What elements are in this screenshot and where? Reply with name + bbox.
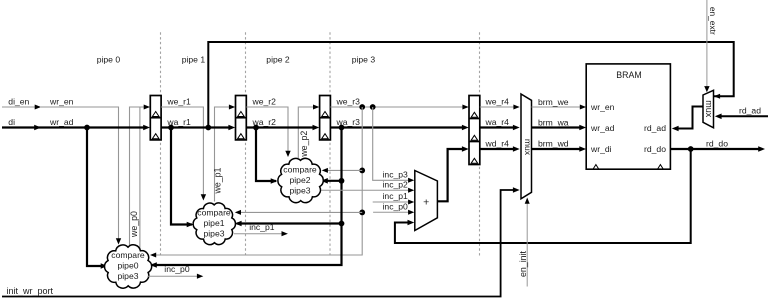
node wr_ad label — [49, 117, 74, 127]
svg-text:inc_p3: inc_p3 — [383, 169, 409, 179]
svg-text:pipe3: pipe3 — [203, 228, 224, 238]
compare cloud CMP0 (pipe0 vs pipe3) — [105, 245, 152, 288]
node we_r1 label — [166, 96, 191, 106]
node we_r3 label — [336, 96, 361, 106]
node en_init label — [518, 250, 528, 276]
wire we_p1 to reg2 en — [215, 105, 236, 202]
wire wa_r3 to compare pipe1 — [235, 221, 342, 227]
svg-text:inc_p2: inc_p2 — [383, 179, 409, 189]
wire adder output to reg4 wd — [437, 146, 468, 201]
register R2 (we_r2/wa_r2) — [236, 96, 247, 140]
wire en_extr — [704, 0, 709, 92]
svg-text:rd_ad: rd_ad — [739, 105, 761, 115]
svg-text:inc_p0: inc_p0 — [383, 201, 409, 211]
svg-text:pipe2: pipe2 — [289, 175, 310, 185]
wire: pipe stage boundary 1 — [245, 32, 247, 255]
wire rd_ad input — [715, 114, 768, 120]
svg-text:we_r2: we_r2 — [252, 96, 277, 106]
svg-text:pipe1: pipe1 — [203, 218, 224, 228]
svg-text:wa_r4: wa_r4 — [485, 117, 510, 127]
node inc_p1 label (adder) — [383, 191, 409, 201]
svg-text:compare: compare — [197, 207, 231, 217]
svg-text:we_r4: we_r4 — [485, 96, 510, 106]
wire wa_r1 to compare pipe1 — [171, 128, 194, 228]
node wa_r1 label — [166, 117, 191, 127]
svg-text:brm_we: brm_we — [538, 97, 569, 107]
node inc_p0 label (adder) — [383, 201, 409, 211]
wire we_r1 to compare pipe1 — [161, 107, 206, 201]
svg-text:rd_do: rd_do — [706, 139, 728, 149]
wire wa_r2 to reg3 — [246, 125, 319, 131]
node we_p1 label — [212, 167, 222, 194]
svg-text:wr_ad: wr_ad — [590, 123, 615, 133]
wire wa_r3 to reg4 — [330, 125, 468, 131]
node wd_r4 label — [485, 138, 510, 148]
node wr_en label — [49, 96, 74, 106]
svg-text:mux: mux — [704, 100, 714, 118]
svg-text:inc_p1: inc_p1 — [249, 222, 275, 232]
svg-text:rd_ad: rd_ad — [644, 123, 666, 133]
svg-text:inc_p0: inc_p0 — [164, 264, 190, 274]
node brm_wd label — [538, 138, 569, 148]
svg-text:pipe 3: pipe 3 — [352, 55, 376, 65]
wire wa_r2 to compare pipe2 — [256, 128, 278, 184]
compare cloud CMP1 (pipe1 vs pipe3) — [193, 203, 235, 245]
node we_r2 label — [252, 96, 277, 106]
mux M2 — [703, 90, 714, 128]
node di label — [8, 117, 15, 127]
svg-text:en_extr: en_extr — [708, 7, 718, 35]
wire wa_r1 feedback to read mux — [205, 42, 733, 130]
compare cloud CMP2 (pipe2 vs pipe3) — [278, 158, 323, 202]
svg-text:pipe3: pipe3 — [289, 185, 310, 195]
wire wr_ad to reg1 — [40, 125, 150, 131]
svg-text:pipe 2: pipe 2 — [266, 55, 290, 65]
svg-text:inc_p1: inc_p1 — [383, 191, 409, 201]
wire init_wr_port — [2, 187, 520, 296]
wire inc_p1 stub to adder — [373, 200, 415, 205]
svg-text:we_p1: we_p1 — [212, 167, 222, 194]
svg-text:wr_en: wr_en — [49, 96, 74, 106]
node wa_r4 label — [485, 117, 510, 127]
mux M1 — [521, 94, 533, 199]
wire inc_p1 output stub — [234, 231, 288, 236]
wire wa_r3 to compare clouds — [150, 128, 344, 268]
node pipe 2 label — [266, 55, 290, 65]
wire: pipe stage boundary 3 — [479, 32, 481, 255]
node inc_p2 label — [383, 179, 409, 189]
wire di wr_ad input — [2, 125, 41, 131]
wire: pipe stage boundary 2 — [329, 32, 331, 255]
svg-text:init_wr_port: init_wr_port — [7, 286, 54, 296]
node wa_r3 label — [336, 117, 361, 127]
svg-text:wr_en: wr_en — [590, 102, 615, 112]
svg-text:brm_wa: brm_wa — [538, 117, 569, 127]
node we_p0 label — [129, 211, 139, 238]
node we_p2 label — [299, 131, 309, 158]
node en_extr label — [708, 7, 718, 35]
wire wr_ad to compare pipe0 — [87, 128, 108, 269]
node di_en label — [8, 96, 29, 106]
wire brm_wa — [532, 125, 587, 131]
node init_wr_port label — [7, 286, 54, 296]
svg-text:compare: compare — [111, 250, 145, 260]
svg-text:en_init: en_init — [518, 250, 528, 276]
register R3 (we_r3/wa_r3) — [320, 96, 331, 140]
wire wd_r4 to mux — [480, 146, 520, 152]
wire we_r4 to mux — [480, 105, 520, 110]
wire wa_r4 to mux — [480, 125, 520, 131]
wire rd_do feedback to adder — [395, 146, 694, 243]
svg-text:wa_r3: wa_r3 — [336, 117, 361, 127]
node inc_p0 label (cloud) — [164, 264, 190, 274]
register R4 (we_r4/wa_r4/wd_r4) — [469, 96, 480, 165]
node rd_do label — [706, 139, 728, 149]
svg-text:wr_di: wr_di — [590, 144, 612, 154]
node rd_ad label — [739, 105, 761, 115]
node brm_we label — [538, 97, 569, 107]
svg-text:wr_ad: wr_ad — [49, 117, 74, 127]
wire wa_r3 to compare pipe2 — [321, 178, 342, 184]
node pipe 1 label — [182, 55, 206, 65]
wire brm_wd — [532, 146, 587, 152]
node pipe 3 label — [352, 55, 376, 65]
svg-text:we_r3: we_r3 — [336, 96, 361, 106]
svg-text:BRAM: BRAM — [616, 70, 641, 80]
svg-text:we_r1: we_r1 — [166, 96, 191, 106]
wire rd_do output — [671, 146, 766, 152]
svg-text:we_p0: we_p0 — [129, 211, 139, 238]
wire we_p0 branch to compare pipe0 — [139, 107, 141, 250]
adder A1 — [415, 171, 438, 231]
BRAM U1 — [586, 64, 670, 169]
wire inc_p0 output stub — [148, 274, 204, 279]
wire wr_en to compare pipe0 — [40, 107, 121, 245]
wire we_p2 to reg3 en — [298, 105, 319, 159]
wire inc_p2 to adder — [322, 188, 415, 193]
wire en_init select — [525, 198, 530, 287]
wire inc_p0 stub to adder — [373, 210, 414, 215]
svg-text:pipe3: pipe3 — [117, 271, 138, 281]
svg-text:mux: mux — [523, 139, 533, 156]
wire inc_p3 from we_r3 — [373, 107, 415, 183]
svg-text:pipe 0: pipe 0 — [97, 55, 121, 65]
wire di_en input — [2, 105, 41, 110]
wire brm_we — [532, 105, 587, 110]
svg-text:+: + — [423, 197, 429, 209]
node inc_p3 label — [383, 169, 409, 179]
node wa_r2 label — [252, 117, 277, 127]
node inc_p1 label (cloud) — [249, 222, 275, 232]
svg-text:di_en: di_en — [8, 96, 29, 106]
wire mux M2 output to BRAM rd_ad — [672, 107, 703, 132]
wire we_r3 to compare pipe2 — [322, 168, 363, 173]
svg-text:wd_r4: wd_r4 — [485, 138, 510, 148]
node pipe 0 label — [97, 55, 121, 65]
svg-text:rd_do: rd_do — [644, 144, 666, 154]
wire we_r3 to reg4 — [330, 104, 468, 110]
register R1 (we_r1/wa_r1) — [150, 96, 161, 140]
svg-text:di: di — [8, 117, 15, 127]
svg-text:we_p2: we_p2 — [299, 131, 309, 158]
svg-text:pipe 1: pipe 1 — [182, 55, 206, 65]
wire we_p0 to reg1 en — [130, 105, 151, 247]
node we_r4 label — [485, 96, 510, 106]
wire we_r3 to compare pipe1 — [235, 210, 362, 215]
wire we_r2 to compare pipe2 — [246, 107, 290, 157]
node brm_wa label — [538, 117, 569, 127]
wire: pipe stage boundary 0 — [160, 32, 162, 255]
wire we_r3 to compare clouds — [150, 107, 365, 258]
svg-text:pipe0: pipe0 — [117, 260, 138, 270]
svg-text:compare: compare — [283, 164, 317, 174]
svg-text:brm_wd: brm_wd — [538, 138, 569, 148]
wire wa_r1 to reg2 — [161, 125, 235, 131]
